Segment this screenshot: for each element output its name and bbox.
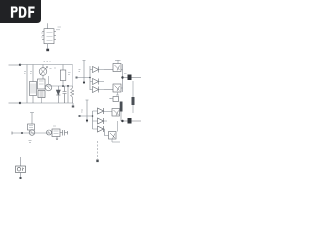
wire emitter join ch2 [121, 112, 123, 122]
connector J1 (input ch1) [76, 61, 86, 84]
wire mid rail [45, 85, 73, 87]
resistor R2 (zigzag right edge) [71, 86, 75, 103]
wire bottom rail 2 [12, 132, 50, 134]
diode D6 [93, 118, 108, 124]
wire vertical 2 [32, 65, 34, 82]
capacitor C6 (output pair bars) [60, 130, 68, 136]
ground (below U1) [46, 49, 49, 52]
diode D3 [90, 79, 104, 85]
label s1 [24, 72, 26, 74]
wire left input stub top [9, 64, 21, 66]
label near Q1 [50, 68, 52, 70]
resistor R4 (top of ch2) [109, 97, 119, 102]
wire top rail [20, 64, 73, 66]
wire left input stub bottom [9, 102, 21, 104]
transistor Q7 [29, 130, 35, 136]
capacitor C1 (hatched box mid-left) [30, 82, 37, 104]
node OUT2 [121, 120, 123, 122]
wire emitter join ch1 [122, 64, 124, 92]
ground (mid block) [72, 106, 74, 108]
transistor Q4 (lower output ch1) [104, 84, 123, 95]
capacitor C3 (on output line ch1) [128, 75, 132, 81]
wire stub below bottom rail [72, 103, 74, 106]
label out ch1 [124, 73, 127, 75]
node B (junction dot bottom-left) [19, 102, 21, 104]
wire U1 right pin out [56, 27, 61, 30]
wire bus ch1 [84, 66, 90, 90]
diode D7 [93, 126, 105, 132]
wire vertical right of mid block [67, 86, 69, 103]
transistor Q6 (lower output ch2) [105, 121, 121, 142]
wire output ch1 [123, 77, 142, 79]
resistor R5 (dark, below R4 on rail) [120, 102, 123, 112]
capacitor C4 (on output line ch2) [128, 118, 132, 124]
wire right edge drop [72, 65, 74, 87]
wire bus ch2 [87, 111, 93, 129]
wire U1 top to badge [47, 23, 49, 28]
battery B1 (GB logo bottom-left) [16, 157, 26, 179]
node OUT1 [121, 76, 123, 78]
node C [62, 85, 64, 87]
IC U2 (box bottom) [52, 129, 60, 140]
label right of R1 [68, 73, 71, 75]
label s2 [30, 72, 32, 74]
label above rail [44, 61, 51, 63]
capacitor C2 [63, 86, 67, 103]
node bus2 [92, 115, 94, 117]
ground (below ch2) [96, 160, 98, 163]
wire antenna lead [30, 113, 34, 125]
diode D2 (triangle) [90, 67, 104, 73]
node C2 [67, 85, 69, 87]
wire bottom rail [20, 102, 73, 104]
transformer T1 (dark box below VR1) [38, 91, 45, 104]
label above mid rail [54, 67, 56, 69]
node A (junction dot top-left) [19, 64, 21, 66]
capacitor C5 (small box on lead) [28, 124, 35, 130]
transistor Q5 (upper output ch2) [112, 109, 120, 117]
transistor Q2 [45, 76, 52, 91]
pot VR1 (boxed component below Q1) [38, 79, 46, 89]
diode D1 [56, 86, 60, 103]
node D [21, 132, 23, 134]
transistor Q8 [47, 130, 52, 135]
transistor Q3 (upper output ch1) [104, 60, 123, 72]
node bus1 [89, 77, 91, 79]
transistor Q1 (circle with arrow) [39, 65, 47, 80]
PDF badge [0, 0, 41, 23]
wire output ch2 [123, 120, 142, 122]
wire vertical 1 [26, 65, 28, 104]
wire dashed ground lead [97, 141, 99, 159]
label above U2 [53, 125, 56, 127]
connector J2 (input ch2) [79, 100, 89, 123]
op-amp U1 (top IC block) [42, 29, 56, 44]
diode D5 [93, 108, 113, 114]
wire U1 down [47, 44, 49, 49]
label T [29, 141, 32, 143]
resistor R3 (between outputs) [132, 81, 135, 113]
diode D4 [90, 87, 104, 93]
resistor R1 (top right of mid block) [60, 65, 66, 87]
